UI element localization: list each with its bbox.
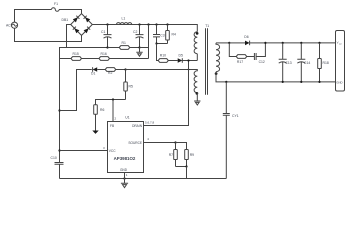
svg-text:SOURCE: SOURCE	[128, 141, 142, 145]
svg-text:C13: C13	[285, 61, 291, 65]
svg-text:out: out	[339, 42, 342, 45]
wire sense to rail	[186, 167, 188, 179]
svg-text:D1: D1	[91, 71, 95, 75]
node D6 out	[264, 42, 266, 44]
resistor R9	[176, 143, 195, 167]
wire FB pin stub	[112, 100, 114, 122]
wire DRAIN	[144, 61, 189, 126]
svg-text:AC: AC	[6, 23, 11, 27]
transformer T1 primary	[194, 24, 209, 54]
node R5 tap	[124, 68, 126, 70]
node clamp	[155, 42, 157, 44]
resistor R10	[158, 53, 178, 62]
resistor R6	[94, 105, 105, 131]
ground chassis aux	[194, 93, 200, 105]
node startup top	[147, 23, 149, 25]
resistor R4	[157, 23, 176, 43]
svg-text:D5: D5	[179, 53, 183, 57]
resistor R2	[105, 68, 125, 75]
resistor R15	[60, 52, 100, 60]
node C13 bottom	[282, 81, 284, 83]
node C14 bottom	[300, 81, 302, 83]
wire AC bottom to bridge bottom	[15, 28, 82, 41]
ground chassis below C2	[136, 48, 142, 57]
diode D6	[229, 35, 265, 45]
svg-text:C14: C14	[304, 61, 310, 65]
wire minus line to startup vertical	[140, 47, 149, 49]
resistor R17	[236, 55, 254, 64]
svg-text:C3: C3	[160, 34, 164, 38]
svg-text:R1: R1	[122, 41, 126, 45]
node FB link	[58, 109, 60, 111]
node C1 top	[106, 23, 108, 25]
node snubber left	[228, 42, 230, 44]
svg-text:C2: C2	[133, 30, 137, 34]
svg-text:C12: C12	[259, 60, 265, 64]
capacitor C14	[297, 43, 310, 82]
node VCC wire	[58, 149, 60, 151]
snubber branch wire	[229, 43, 236, 57]
node C14 top	[300, 42, 302, 44]
ground arrow below R6	[92, 131, 98, 134]
svg-text:R7: R7	[169, 153, 173, 157]
wire aux row	[126, 69, 198, 71]
IC U1 AP3981O2	[103, 116, 155, 178]
wire startup vertical	[148, 25, 150, 59]
svg-text:R15: R15	[73, 52, 79, 56]
resistor R16	[99, 52, 149, 60]
wire SOURCE	[144, 142, 176, 144]
resistor R7	[169, 143, 178, 167]
svg-text:5,6,7,8: 5,6,7,8	[145, 121, 155, 125]
svg-text:DB1: DB1	[62, 18, 69, 22]
node C2 top	[138, 23, 140, 25]
svg-text:GND: GND	[336, 80, 342, 84]
wire secondary top	[216, 42, 229, 44]
capacitor C13	[279, 43, 292, 82]
svg-text:R5: R5	[129, 85, 133, 89]
svg-text:U1: U1	[125, 116, 129, 120]
resistor R18	[318, 42, 329, 83]
transformer core	[206, 28, 208, 95]
svg-text:FB: FB	[110, 124, 114, 128]
node C13 top	[282, 42, 284, 44]
capacitor C1	[101, 25, 112, 48]
svg-text:DRAIN: DRAIN	[132, 124, 143, 128]
svg-text:CY1: CY1	[232, 114, 239, 118]
wire GND pin	[124, 173, 126, 179]
svg-text:R2: R2	[108, 71, 112, 75]
svg-text:AP3981O2: AP3981O2	[114, 156, 136, 161]
AC source	[6, 22, 18, 28]
resistor R1	[108, 41, 140, 49]
capacitor C12	[254, 43, 265, 64]
wire bridge minus down and left	[60, 25, 108, 59]
svg-text:C1: C1	[101, 30, 105, 34]
svg-text:R6: R6	[100, 108, 104, 112]
svg-text:T1: T1	[205, 24, 209, 28]
wire link to D1 row	[60, 70, 92, 111]
capacitor C2	[133, 25, 144, 48]
svg-text:R18: R18	[323, 61, 329, 65]
wire output top rail	[265, 42, 335, 44]
node IC GND	[123, 177, 125, 179]
wire bottom rail	[60, 178, 227, 180]
node sense bottom	[185, 165, 187, 167]
node sense top	[174, 141, 176, 143]
svg-text:C10: C10	[51, 156, 57, 160]
svg-text:GND: GND	[120, 168, 128, 172]
junction aux row crossing	[188, 69, 190, 71]
wire primary bottom	[196, 54, 198, 61]
wire VCC vertical	[59, 59, 61, 163]
capacitor C10	[51, 156, 64, 178]
diode D1	[91, 67, 106, 75]
svg-text:R9: R9	[190, 153, 194, 157]
wire AC top to fuse to bridge top	[15, 10, 82, 23]
node drain	[187, 59, 189, 61]
svg-text:R17: R17	[237, 60, 243, 64]
svg-text:R16: R16	[101, 52, 107, 56]
wire secondary bottom	[216, 72, 336, 82]
wire VCC pin	[60, 150, 108, 152]
bridge rectifier DB1	[62, 14, 93, 36]
svg-text:L1: L1	[122, 17, 126, 21]
svg-text:VCC: VCC	[109, 149, 116, 153]
node C1 bottom	[106, 46, 108, 48]
ground chassis IC	[121, 179, 128, 188]
wire clamp down	[157, 44, 159, 61]
svg-text:D6: D6	[244, 35, 248, 39]
transformer T1 secondary	[215, 43, 220, 75]
svg-text:R10: R10	[160, 53, 166, 57]
transformer T1 aux winding	[194, 70, 198, 95]
node C2 bottom	[138, 46, 140, 48]
connector J1	[336, 31, 345, 92]
diode D5	[178, 53, 198, 63]
node CY1 top	[225, 81, 227, 83]
svg-text:F1: F1	[54, 2, 58, 6]
wire FB horizontal	[96, 100, 126, 105]
node FB	[112, 98, 114, 100]
svg-text:R4: R4	[172, 32, 176, 36]
wire + rail from bridge to transformer	[92, 25, 197, 32]
capacitor CY1	[223, 82, 239, 179]
inductor L1	[117, 17, 132, 25]
resistor R5	[124, 70, 133, 100]
capacitor C3	[153, 23, 165, 43]
fuse F1	[52, 2, 60, 11]
